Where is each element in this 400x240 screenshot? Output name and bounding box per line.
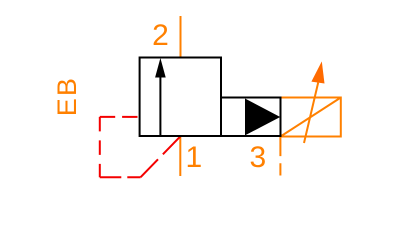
pilot line left segment <box>99 117 101 177</box>
valve body box <box>140 58 221 137</box>
pilot line diagonal segment <box>141 136 181 177</box>
svg-text:EB: EB <box>52 76 82 116</box>
throttle adjust arrowhead <box>311 61 324 83</box>
pilot line top segment <box>100 116 140 118</box>
svg-text:1: 1 <box>186 141 203 174</box>
port line 2 <box>180 16 182 58</box>
svg-text:3: 3 <box>250 141 267 174</box>
throttle diagonal <box>281 98 341 137</box>
pilot line bottom segment <box>100 176 141 178</box>
port line 1 <box>179 136 181 176</box>
check valve frame <box>221 98 281 137</box>
flow arrowhead <box>155 58 166 78</box>
throttle box <box>281 98 341 137</box>
flow arrow line <box>159 76 161 136</box>
drain dashed line <box>279 137 281 176</box>
check valve triangle <box>245 99 280 136</box>
throttle adjust arrow shaft <box>304 83 318 144</box>
svg-text:2: 2 <box>152 19 169 52</box>
